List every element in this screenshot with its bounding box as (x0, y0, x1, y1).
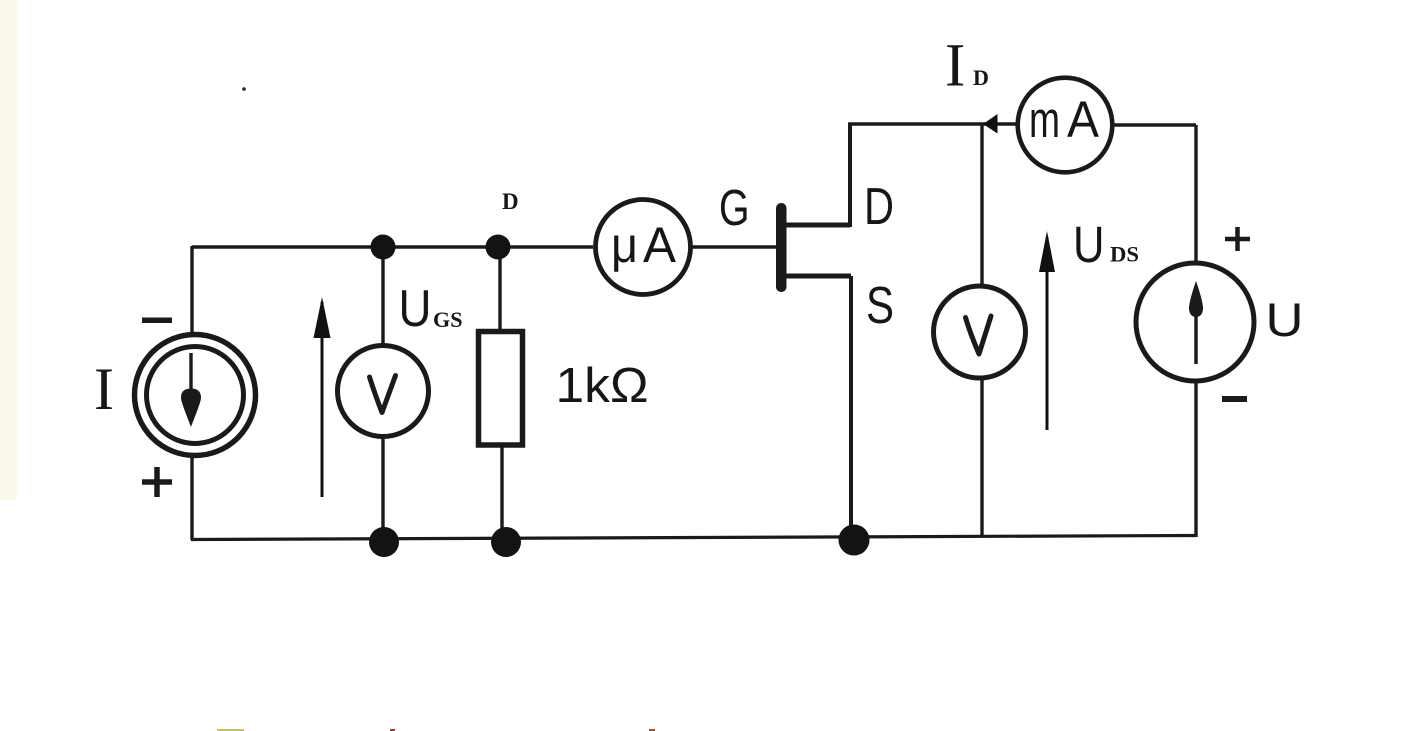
voltage source U circle (1136, 263, 1254, 381)
label minus of source U (1222, 396, 1247, 402)
arrow UGS annotation (321, 302, 324, 497)
svg-text:D: D (502, 189, 519, 214)
svg-text:U: U (1073, 216, 1105, 273)
svg-text:S: S (866, 277, 894, 335)
svg-text:DS: DS (1110, 242, 1139, 267)
node dot bottom at V1 (369, 527, 399, 557)
node dot top at V1 (371, 235, 396, 260)
wire resistor top lead (498, 247, 501, 331)
wire voltmeter V2 bottom lead (980, 377, 983, 537)
resistor 1k body (479, 332, 523, 446)
label plus of source U (1225, 227, 1250, 251)
scan edge tint left (0, 0, 17, 500)
bottom edge speck red (390, 729, 395, 731)
voltage source arrow shaft (1194, 305, 1198, 364)
current source arrow shaft (189, 353, 192, 396)
svg-text:I: I (94, 356, 114, 422)
wire drain vertical (848, 124, 852, 227)
wire right rail upper vertical (1194, 125, 1197, 264)
wire voltmeter V1 bottom lead (381, 437, 384, 541)
voltmeter V2 V glyph (966, 316, 992, 354)
wire gate lead (692, 245, 776, 248)
svg-text:GS: GS (433, 307, 463, 332)
wire voltmeter V2 top lead (980, 124, 983, 288)
voltmeter V1 circle (338, 346, 429, 437)
svg-text:A: A (643, 217, 677, 273)
voltmeter V2 circle (934, 286, 1026, 378)
current source I inner circle (147, 347, 244, 444)
label plus of current source (142, 467, 172, 497)
wire right rail lower vertical (1194, 381, 1197, 537)
scan speck (242, 87, 246, 91)
svg-text:1kΩ: 1kΩ (556, 359, 649, 413)
transistor gate bar (776, 203, 787, 292)
wire left rail lower vertical (190, 458, 193, 540)
svg-text:U: U (399, 280, 432, 338)
wire voltmeter V1 top lead (381, 247, 384, 346)
bottom edge speck yellow (217, 729, 244, 731)
voltage source arrowhead up (1189, 281, 1203, 317)
wire source vertical to bottom rail (849, 276, 853, 540)
junction dot source bottom (839, 525, 870, 556)
wire bottom rail (191, 536, 1196, 540)
current arrowhead into drain node (983, 114, 998, 134)
microammeter uA circle (596, 200, 691, 295)
node dot top at resistor, label D (486, 235, 511, 260)
milliammeter mA circle (1018, 78, 1113, 173)
svg-text:A: A (1067, 91, 1099, 148)
svg-text:D: D (864, 178, 894, 236)
svg-text:m: m (1029, 91, 1060, 148)
svg-text:D: D (973, 65, 989, 90)
svg-text:U: U (1266, 293, 1304, 346)
wire top right rail to mA (848, 122, 1016, 125)
svg-text:I: I (945, 33, 965, 100)
current source arrowhead down (181, 389, 201, 428)
svg-text:μ: μ (611, 217, 638, 273)
wire mA to right corner (1113, 123, 1196, 126)
label minus of current source (142, 318, 172, 324)
wire drain horizontal stub (784, 223, 850, 228)
current source I outer circle (135, 335, 256, 456)
svg-text:G: G (719, 179, 750, 236)
arrow UDS annotation (1046, 237, 1049, 430)
wire top left rail horizontal (192, 245, 593, 248)
wire source horizontal stub (784, 274, 851, 279)
wire left rail upper vertical (190, 246, 193, 333)
bottom edge speck orange (649, 729, 655, 731)
wire resistor bottom lead (500, 446, 503, 541)
node dot bottom at resistor (491, 527, 521, 557)
voltmeter V1 V glyph (370, 376, 396, 413)
